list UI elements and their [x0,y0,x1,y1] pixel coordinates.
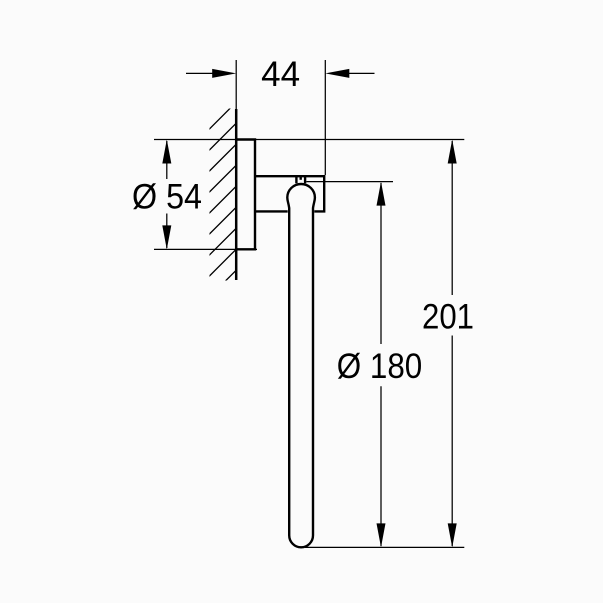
ring mounting pin [296,177,305,184]
dimension 44 arrow left [186,69,236,78]
svg-text:Ø 180: Ø 180 [337,347,423,386]
dimension 201 line and arrows [448,140,457,548]
extension line bottom-left (for dim 54) [154,248,257,250]
svg-text:201: 201 [422,298,474,337]
extension line top of ring (for dim 180) [306,181,393,183]
extension line 44 left (above wall) [235,60,237,109]
extension line bottom (for dim 201 and 180) [305,546,464,548]
flange (wall plate, side view) [236,140,255,250]
svg-text:Ø 54: Ø 54 [132,177,202,216]
svg-text:44: 44 [261,55,300,94]
dimension 44 arrow right [325,69,374,78]
towel ring (side profile, capsule with hook shoulders) [287,184,315,547]
wall face line [235,109,238,280]
wall hatching [205,98,240,301]
extension line top (for dim 54 and 201) [154,139,464,141]
arm / ring holder bar (side view) [255,176,324,211]
dimension Ø54 line and arrows [162,140,171,250]
dimension Ø180 line and arrows [377,182,386,548]
extension line 44 right (outer face of arm) [324,60,326,175]
